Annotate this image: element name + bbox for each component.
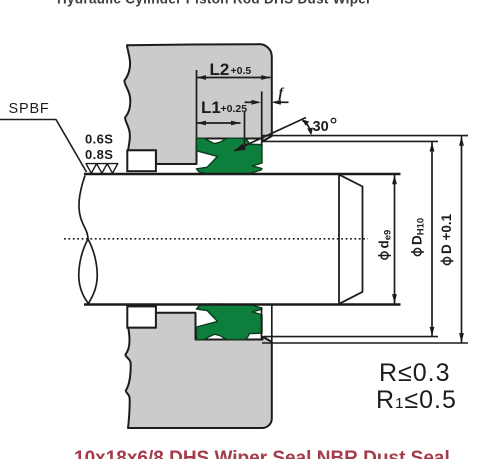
f extension line left [261,92,263,147]
svg-text:Hydraulic Cylinder Piston Rod: Hydraulic Cylinder Piston Rod DHS Dust W… [57,0,372,6]
surface finish triangles [86,164,118,174]
svg-text:R1≤0.5: R1≤0.5 [376,386,457,414]
svg-text:0.8S: 0.8S [85,147,113,162]
dimension phi-d e9 line [394,175,396,304]
phi-D +0.1 label [439,213,454,264]
shaft top line [84,173,401,176]
seal lower (mirrored green wiper profile) [197,304,263,340]
shaft right chamfered end [339,175,363,304]
extension line groove top inner [263,140,438,142]
extension line groove top outer [262,135,468,137]
svg-text:+0.25: +0.25 [221,103,248,115]
housing lower block [125,313,271,428]
svg-text:+0.5: +0.5 [231,65,252,77]
shaft right chamfer start line [338,174,340,305]
extension line groove bottom inner [264,336,438,338]
centerline [64,238,368,240]
shaft left break curve [79,176,88,240]
phi-D H10 label [410,218,427,256]
dimension L1 line [197,122,241,124]
dimension L2 line [197,77,271,79]
dimension phi-D H10 line [431,142,433,336]
svg-text:D +0.1: D +0.1 [439,213,454,254]
shaft bottom line [84,303,401,306]
shaft left break lens [79,239,97,304]
lower seal face extension [261,307,263,339]
svg-text:R≤0.3: R≤0.3 [379,359,451,387]
svg-text:SPBF: SPBF [9,101,50,117]
phi-d e9 label [377,230,394,259]
30-degree arc arrow [303,121,311,134]
extension line groove bottom outer [262,342,468,344]
retaining ring upper (white notch box) [127,150,156,171]
30-degree leader line with arrow [235,118,307,151]
lower land edge line [271,306,273,342]
housing upper block [124,44,271,164]
seal upper (green wiper profile) [197,138,263,174]
svg-text:10x18x6/8 DHS Wiper Seal NBR D: 10x18x6/8 DHS Wiper Seal NBR Dust Seal [74,448,450,459]
svg-text:L2: L2 [210,60,230,79]
SPBF leader line [0,120,87,173]
svg-text:L1: L1 [201,98,221,117]
L2 extension line left [196,70,198,138]
dimension f arrows [245,101,253,103]
retaining ring lower (white notch box) [127,306,156,327]
dimension phi-D +0.1 line [461,136,463,342]
svg-text:0.6S: 0.6S [85,132,113,147]
svg-text:30: 30 [313,119,329,135]
L1 extension line right [244,112,246,151]
